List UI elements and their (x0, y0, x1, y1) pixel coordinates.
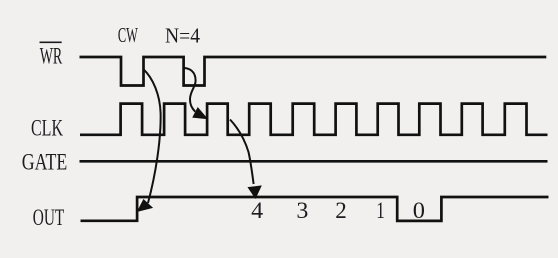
svg-text:CW: CW (118, 23, 138, 47)
svg-text:CLK: CLK (31, 115, 63, 140)
svg-text:OUT: OUT (33, 205, 65, 230)
WR waveform: high with two low pulses (CW write, N=4 write) (80, 57, 547, 86)
svg-text:1: 1 (376, 198, 385, 223)
label WR with overline (40, 42, 63, 68)
svg-text:2: 2 (335, 198, 347, 223)
arrow curve from N=4 pulse down to CLK edge (184, 68, 207, 119)
svg-text:WR: WR (40, 44, 63, 69)
svg-text:3: 3 (296, 198, 308, 223)
arrow curve from CLK falling edge down to OUT count 4 (230, 120, 261, 199)
svg-text:4: 4 (251, 198, 264, 223)
svg-text:N=4: N=4 (165, 23, 200, 47)
arrow curve from CW pulse down to OUT rising edge (138, 69, 161, 211)
CLK waveform: 10 clock pulses (80, 104, 548, 135)
OUT waveform: low, rises at CW write, high while counting, low pulse at 0, high (81, 197, 549, 221)
GATE waveform: constant high line (80, 160, 548, 163)
svg-text:0: 0 (413, 198, 425, 223)
svg-text:GATE: GATE (22, 149, 68, 174)
